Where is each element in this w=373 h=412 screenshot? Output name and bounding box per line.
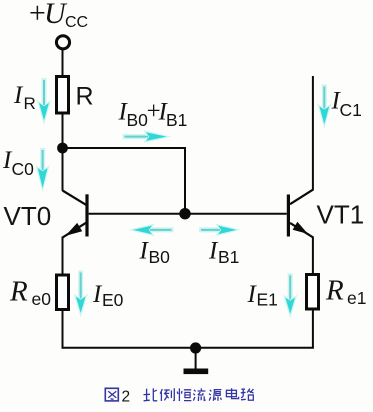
svg-text:VT0: VT0 (4, 201, 52, 231)
power label +Ucc (27, 0, 88, 31)
svg-text:R: R (76, 83, 94, 111)
wire VT1 emitter to Re1 (312, 237, 314, 275)
流 (193, 388, 205, 401)
wire VT0 emitter to Re0 (62, 237, 64, 276)
源 (209, 390, 221, 401)
label IE1 (247, 281, 278, 310)
current arrow IC1 (317, 85, 331, 129)
svg-text:E0: E0 (102, 290, 124, 310)
svg-text:B1: B1 (166, 110, 187, 130)
路 (241, 389, 254, 401)
transistor VT1 (287, 190, 313, 238)
svg-text:C0: C0 (12, 159, 35, 179)
图 (105, 388, 118, 401)
svg-text:R: R (9, 276, 28, 308)
例 (160, 388, 174, 401)
base rail wire (89, 213, 287, 215)
label IC0 (2, 147, 34, 179)
bottom rail wire (62, 347, 314, 349)
label IB1 (208, 238, 239, 268)
label IC1 (331, 88, 362, 121)
wire Re0 to bottom rail (62, 310, 64, 348)
node B junction dot (179, 208, 190, 219)
wire node A to base node (feed) (63, 148, 186, 214)
svg-text:2: 2 (122, 388, 131, 405)
wire VT1 collector up (312, 76, 314, 191)
resistor Re0 (57, 275, 69, 310)
wire Re1 to bottom rail (312, 309, 314, 348)
current arrow IB0 (129, 223, 174, 236)
label IB0+IB1 (118, 98, 188, 130)
电 (226, 388, 238, 398)
current arrow IE0 (74, 271, 88, 318)
terminal Ucc (56, 36, 69, 49)
ground node dot (190, 342, 201, 353)
svg-text:CC: CC (65, 14, 88, 31)
label IR (13, 82, 36, 113)
svg-text:B0: B0 (149, 247, 171, 267)
svg-text:R: R (24, 94, 36, 113)
svg-text:e0: e0 (32, 289, 52, 309)
恒 (177, 388, 191, 401)
current arrow IB1 (199, 223, 241, 236)
svg-text:VT1: VT1 (317, 200, 365, 230)
current arrow IC0 (36, 148, 50, 193)
resistor Re1 (307, 275, 319, 310)
current arrow IR (37, 78, 51, 125)
label Re0 (9, 276, 51, 310)
svg-text:e1: e1 (347, 288, 366, 308)
wire R to node A (62, 113, 64, 148)
ground (184, 348, 209, 374)
svg-text:R: R (325, 275, 344, 307)
label IE0 (92, 281, 124, 310)
current arrow IB0+IB1 (123, 130, 172, 143)
svg-text:B1: B1 (218, 247, 239, 267)
svg-text:C1: C1 (340, 100, 362, 120)
node A junction dot (57, 143, 68, 154)
current arrow IE1 (283, 273, 297, 318)
label Re1 (325, 275, 366, 309)
wire node A to VT0 collector (62, 148, 64, 191)
label IB0 (139, 238, 171, 268)
caption 图2 比例恒流源电路 (105, 388, 253, 405)
resistor R (57, 77, 69, 114)
transistor VT0 (63, 191, 89, 238)
比 (144, 388, 158, 401)
svg-text:E1: E1 (257, 290, 278, 310)
svg-text:I: I (13, 82, 24, 109)
wire terminal to R (62, 49, 64, 77)
